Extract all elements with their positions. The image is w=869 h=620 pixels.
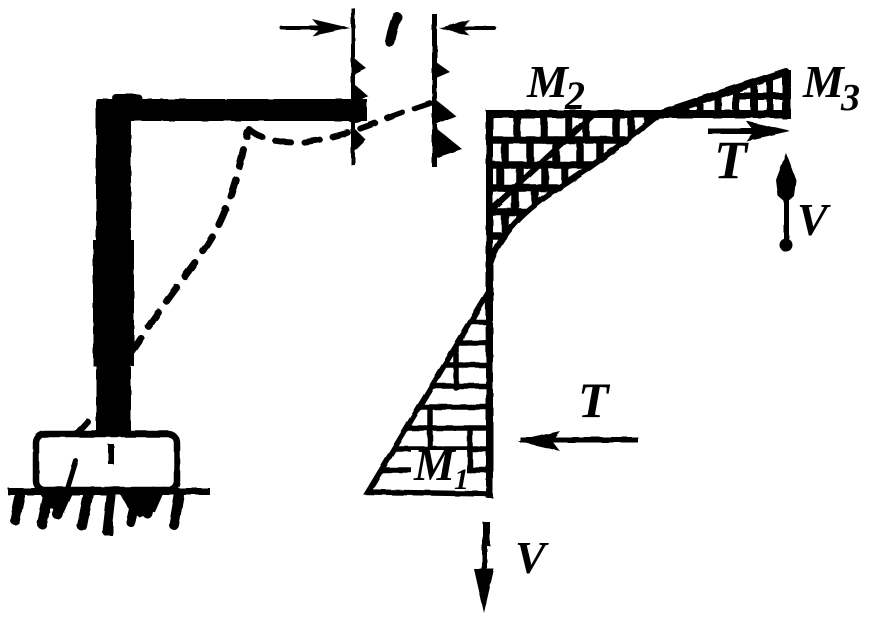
svg-text:2: 2 — [564, 73, 585, 118]
svg-text:V: V — [515, 532, 549, 583]
svg-text:T: T — [578, 372, 611, 428]
svg-text:M: M — [526, 56, 570, 107]
svg-text:1: 1 — [454, 463, 469, 496]
svg-text:T: T — [714, 130, 749, 190]
svg-text:M: M — [413, 439, 457, 490]
svg-text:M: M — [802, 56, 846, 107]
svg-text:3: 3 — [840, 77, 860, 119]
svg-text:V: V — [797, 194, 831, 245]
